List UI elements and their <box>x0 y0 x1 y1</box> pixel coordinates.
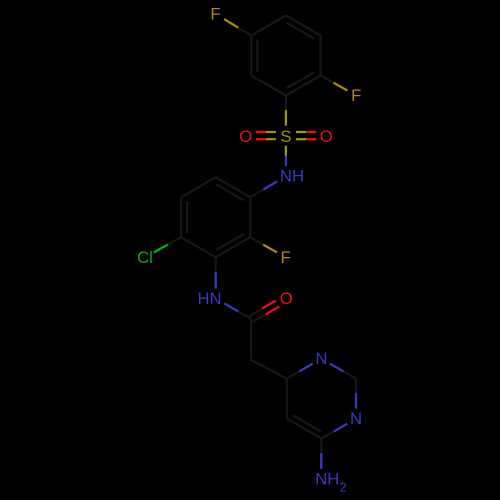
wire S=O left (S half) <box>266 131 276 133</box>
wire bond C5-F1 (C half) <box>224 19 251 35</box>
wire bond C5-F1 (F1 half) <box>224 19 238 28</box>
svg-text:HN: HN <box>197 289 221 308</box>
wire S=O right (O half) <box>306 131 316 133</box>
svg-text:N: N <box>350 409 362 428</box>
wire C=O amide line1 (C half) <box>250 301 276 317</box>
wire bond ring2 A-B <box>216 177 251 197</box>
svg-text:S: S <box>280 127 291 146</box>
wire C=O amide line-1 (O half) <box>266 306 280 314</box>
wire C=O amide line-1 (C half) <box>253 306 279 321</box>
wire bond C2-C3 top ring <box>319 36 321 76</box>
svg-text:NH: NH <box>315 470 339 489</box>
wire bond C-N amide (C half) <box>215 257 217 288</box>
wire bond C1-C2 top ring <box>286 76 321 96</box>
svg-text:NH: NH <box>280 167 304 186</box>
wire C=O amide line1 (O half) <box>262 301 276 309</box>
wire bond N3-C4 (N3 half) <box>334 424 347 432</box>
wire bond C-Cl (C half) <box>154 237 181 252</box>
wire bond N-C amide (C half) <box>224 303 251 319</box>
wire bond C2-N3 (C half) <box>355 379 357 409</box>
wire bond N1-C2 (N1 half) <box>330 364 343 372</box>
wire S=O left (O half) <box>256 138 266 140</box>
wire bond C5-C6 <box>286 379 288 419</box>
wire bond N-C amide (Nam half) <box>224 303 238 311</box>
wire bond N-C(ring2) (C half) <box>250 181 277 197</box>
wire bond N1-C2 (C half) <box>330 364 356 379</box>
wire bond C-Cl (Cl half) <box>154 245 168 253</box>
wire bond ring2 F-A <box>181 177 216 197</box>
wire bond C4-NH2 (Nh2 half) <box>320 453 322 469</box>
wire top ring dbl 2 inner <box>286 23 314 39</box>
wire top ring dbl 3 inner <box>256 40 258 72</box>
svg-text:O: O <box>320 127 333 146</box>
wire bond C-F3 (C half) <box>250 237 277 252</box>
svg-text:F: F <box>210 5 220 24</box>
svg-text:O: O <box>280 289 293 308</box>
wire bond C-N amide (Nam half) <box>215 272 217 288</box>
wire bond C5-C6 top ring <box>250 36 252 76</box>
wire ring2 dbl 3 inner <box>186 201 188 233</box>
wire S=O right (S half) <box>296 138 306 140</box>
wire S=O right (S half) <box>296 131 306 133</box>
wire bond C6-N1 (C half) <box>287 364 313 379</box>
wire bond ring2 B-C <box>249 197 251 237</box>
wire bond S-N (Ns half) <box>285 156 287 166</box>
wire bond S-N (S half) <box>285 146 287 156</box>
wire bond C2-F2 (C half) <box>321 76 348 91</box>
wire bond ring2 E-F <box>180 197 182 237</box>
wire bond C1-S (S half) <box>285 110 287 126</box>
wire top ring dbl 1 inner <box>286 72 314 88</box>
wire bond ring2 D-E <box>181 237 216 257</box>
wire ring2 dbl 1 inner <box>216 184 244 200</box>
wire bond C3-C4 top ring <box>286 16 321 36</box>
wire bond ring2 C-D <box>216 237 251 257</box>
wire bond N3-C4 (C half) <box>321 424 347 439</box>
svg-text:F: F <box>280 248 290 267</box>
wire bond CH2-C6 <box>251 360 287 379</box>
wire S=O left (S half) <box>266 138 276 140</box>
svg-text:F: F <box>351 86 361 105</box>
svg-text:2: 2 <box>340 481 347 495</box>
wire bond C2-F2 (F2 half) <box>334 83 348 91</box>
svg-text:N: N <box>315 349 327 368</box>
svg-text:Cl: Cl <box>137 248 153 267</box>
wire bond C-F3 (F3 half) <box>263 245 277 253</box>
wire bond C4-C5 <box>287 419 322 439</box>
wire bond C2-N3 (N3 half) <box>355 393 357 409</box>
svg-text:O: O <box>239 127 252 146</box>
wire bond C4-NH2 (C half) <box>320 439 322 469</box>
wire ring2 dbl 2 inner <box>216 234 244 250</box>
wire bond C6-N1 (N1 half) <box>299 364 312 372</box>
wire bond C1-S (C half) <box>285 96 287 126</box>
wire bond C4-C5 top ring <box>251 16 286 36</box>
wire bond N-C(ring2) (Ns half) <box>263 181 277 189</box>
wire pyrimidine dbl C4-C5 inner <box>293 416 321 432</box>
wire S=O right (O half) <box>306 138 316 140</box>
wire bond Cam-CH2 <box>250 319 252 360</box>
wire bond C6-C1 top ring <box>251 76 286 96</box>
wire S=O left (O half) <box>256 131 266 133</box>
